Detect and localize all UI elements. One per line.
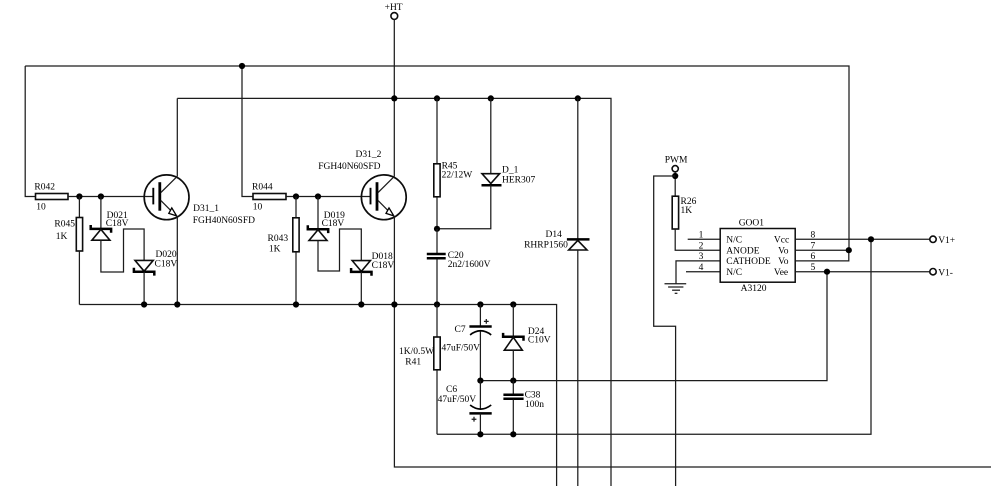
wire pin 7 [795, 249, 849, 251]
node junction pin7 top rail [846, 247, 852, 253]
diode D14 [524, 230, 589, 251]
node PWM terminal [665, 156, 688, 172]
svg-text:1: 1 [699, 231, 704, 241]
svg-text:ANODE: ANODE [726, 247, 759, 257]
svg-text:C18V: C18V [155, 260, 178, 270]
svg-text:R41: R41 [405, 358, 421, 368]
wire gate of D31_1 [68, 196, 153, 198]
resistor R044 [252, 183, 286, 213]
node bus D018 [358, 301, 364, 307]
node junction second rail R45 [434, 95, 440, 101]
node bus D31_1 emitter [174, 301, 180, 307]
node bus D31_2 emitter [391, 301, 397, 307]
svg-text:C18V: C18V [372, 261, 395, 271]
wire emitter bus [79, 305, 556, 486]
svg-text:22/12W: 22/12W [442, 170, 473, 180]
node mid rail C7 C6 [477, 378, 483, 384]
svg-text:N/C: N/C [726, 235, 742, 245]
wire left drop to R042 [25, 66, 35, 197]
svg-text:CATHODE: CATHODE [726, 257, 771, 267]
wire R043 bottom lead [295, 252, 297, 305]
wire D018 to bus [360, 272, 362, 305]
svg-text:C18V: C18V [322, 219, 345, 229]
node bus D020 [141, 301, 147, 307]
wire bottom mid rail Vcc [437, 239, 871, 434]
wire R45 top lead [436, 98, 438, 163]
svg-text:Vee: Vee [774, 268, 788, 278]
svg-text:3: 3 [699, 252, 704, 262]
wire R045 top lead [78, 197, 80, 218]
svg-text:D020: D020 [156, 250, 177, 260]
diode D019 zener [308, 211, 345, 241]
wire D24 top lead [512, 305, 514, 337]
svg-text:Vcc: Vcc [774, 235, 789, 245]
svg-text:1K: 1K [681, 206, 693, 216]
resistor R043 [268, 218, 300, 255]
wire D31_1 emitter to bus [176, 217, 178, 305]
wire pin 4 stub [686, 271, 720, 273]
wire pin 6 [795, 250, 849, 261]
wire R26 to pin 2 [675, 229, 720, 250]
svg-text:1K: 1K [269, 245, 281, 255]
resistor R41 [399, 337, 440, 370]
node bus R043 [293, 301, 299, 307]
wire C6 bottom lead [479, 413, 481, 434]
node V1- terminal [930, 268, 953, 278]
wire top rail [25, 66, 849, 250]
wire R043 top lead [295, 197, 297, 218]
svg-text:C6: C6 [446, 385, 457, 395]
wire D31_2 emitter to bus and bottom rail [394, 217, 991, 467]
svg-text:N/C: N/C [726, 268, 742, 278]
svg-text:100n: 100n [525, 400, 544, 410]
wire D14 top lead [577, 98, 579, 239]
wire PWM left branch [654, 176, 676, 486]
node bus D24 [510, 301, 516, 307]
resistor R26 [672, 196, 696, 229]
node junction PWM [672, 173, 678, 179]
wire C7 bottom lead [479, 332, 481, 381]
node junction D021 [98, 193, 104, 199]
node bus C7 [477, 301, 483, 307]
svg-text:D_1: D_1 [502, 165, 519, 175]
node junction Vcc drop [868, 236, 874, 242]
wire PWM to R26 [674, 172, 676, 196]
svg-text:V1+: V1+ [938, 236, 955, 246]
capacitor C38 [503, 390, 544, 410]
node V1+ terminal [930, 236, 955, 246]
wire second rail [177, 98, 611, 486]
op-amp U1 optocoupler GOO1 A3120 [720, 218, 795, 294]
wire staircase D019 to D018 [318, 229, 361, 271]
svg-text:47uF/50V: 47uF/50V [442, 343, 481, 353]
capacitor C7 polarized [442, 319, 492, 353]
svg-text:R043: R043 [268, 234, 289, 244]
svg-text:10: 10 [253, 203, 263, 213]
wire D021 top lead [100, 197, 102, 229]
diode D020 zener [134, 250, 177, 276]
node junction R45 C20 [434, 226, 440, 232]
svg-text:R042: R042 [34, 183, 55, 193]
wire D24 bottom lead [512, 350, 514, 380]
diode D018 zener [351, 252, 394, 276]
svg-text:C18V: C18V [106, 219, 129, 229]
svg-text:FGH40N60SFD: FGH40N60SFD [318, 162, 380, 172]
node junction top rail [239, 63, 245, 69]
wire +HT vertical to D31_2 collector [393, 19, 395, 176]
wire D020 to bus [143, 272, 145, 305]
svg-text:R045: R045 [54, 220, 75, 230]
wire D14 bottom lead [577, 250, 579, 486]
node junction R045 [76, 193, 82, 199]
svg-text:FGH40N60SFD: FGH40N60SFD [193, 216, 255, 226]
svg-text:+HT: +HT [385, 3, 403, 13]
capacitor C20 [427, 251, 491, 270]
svg-text:D14: D14 [546, 230, 563, 240]
node mid rail D24 C38 [510, 378, 516, 384]
wire D019 top lead [317, 197, 319, 229]
svg-text:PWM: PWM [665, 156, 688, 166]
wire D_1 top lead [490, 98, 492, 173]
node bottom rail C6 [477, 431, 483, 437]
wire D_1 bottom lead to R45 [437, 185, 491, 229]
svg-text:GOO1: GOO1 [739, 218, 765, 228]
resistor R45 [434, 162, 472, 197]
wire C38 bottom lead [512, 400, 514, 435]
svg-text:Vo: Vo [778, 247, 789, 257]
wire C6 top lead [479, 381, 481, 409]
capacitor C6 polarized [438, 385, 492, 422]
svg-text:47uF/50V: 47uF/50V [438, 395, 477, 405]
wire R41 top lead [436, 305, 438, 338]
svg-text:V1-: V1- [938, 268, 953, 278]
wire R044 drop from top rail [242, 66, 253, 197]
node junction second rail D14 [575, 95, 581, 101]
svg-text:RHRP1560: RHRP1560 [524, 241, 568, 251]
diode D021 zener [91, 211, 129, 240]
wire R045 bottom lead [78, 251, 80, 305]
transistor D31_2 IGBT [318, 150, 406, 220]
node junction R043 [293, 193, 299, 199]
wire D31_1 collector [176, 98, 178, 176]
svg-text:D31_1: D31_1 [193, 204, 219, 214]
svg-text:R044: R044 [252, 183, 273, 193]
svg-text:C10V: C10V [528, 336, 551, 346]
svg-text:D31_2: D31_2 [356, 150, 382, 160]
svg-text:1K: 1K [56, 232, 68, 242]
wire R45 bottom lead [436, 197, 438, 229]
wire C7 top lead [479, 305, 481, 327]
svg-text:10: 10 [36, 203, 46, 213]
node junction second rail D_1 [488, 95, 494, 101]
resistor R042 [34, 183, 68, 213]
ground [665, 284, 687, 294]
node bottom rail C38 [510, 431, 516, 437]
node junction D019 [315, 193, 321, 199]
node junction second rail +HT [391, 95, 397, 101]
resistor R045 [54, 218, 82, 252]
svg-text:2: 2 [699, 241, 704, 251]
svg-text:1K/0.5W: 1K/0.5W [399, 347, 434, 357]
diode D_1 [482, 165, 536, 185]
diode D24 zener [503, 327, 551, 350]
wire R41 bottom lead [436, 370, 438, 435]
wire C20 top lead [436, 229, 438, 253]
transistor D31_1 IGBT [144, 175, 255, 226]
svg-text:C7: C7 [455, 325, 466, 335]
wire staircase D021 to D020 [101, 229, 144, 272]
wire mid rail Vee [480, 272, 827, 381]
wire pin 1 stub [688, 238, 721, 240]
wire C38 top lead [512, 381, 514, 395]
svg-text:4: 4 [699, 263, 704, 273]
wire C20 bottom lead [436, 259, 438, 304]
svg-text:C38: C38 [525, 390, 541, 400]
node bus C20 R41 [434, 301, 440, 307]
node junction Vee drop [824, 269, 830, 275]
wire pin 5 to V1- [795, 271, 930, 273]
svg-text:HER307: HER307 [502, 176, 536, 186]
svg-text:Vo: Vo [778, 257, 789, 267]
svg-text:A3120: A3120 [741, 284, 767, 294]
wire gate of D31_2 [286, 196, 370, 198]
wire pin 8 to V1+ [795, 238, 930, 240]
svg-text:2n2/1600V: 2n2/1600V [448, 260, 491, 270]
node +HT terminal [385, 3, 403, 19]
wire pin 3 to ground [676, 261, 720, 284]
